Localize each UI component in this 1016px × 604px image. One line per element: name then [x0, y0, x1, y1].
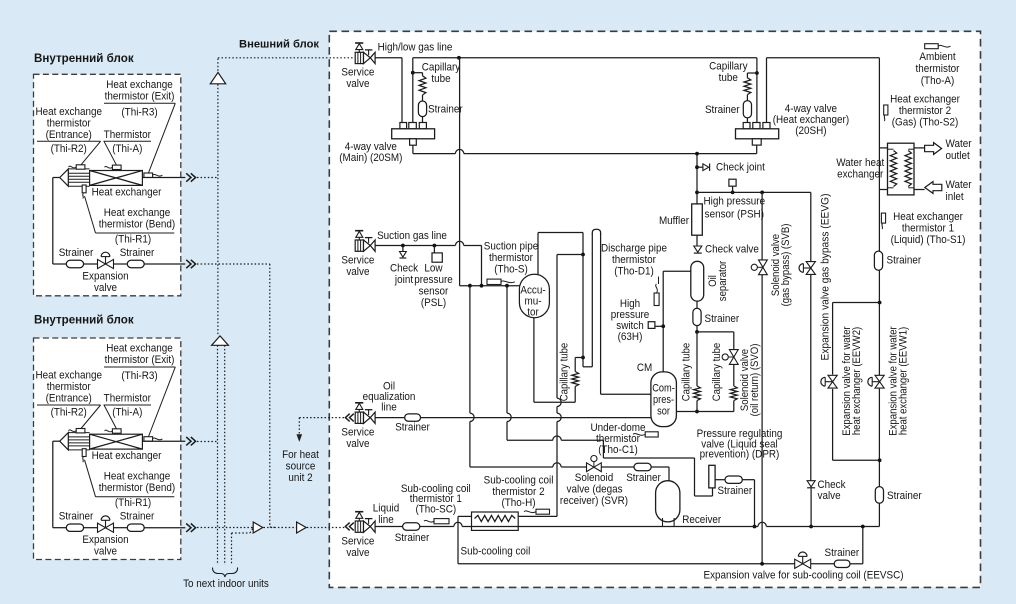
svg-text:High pressure: High pressure — [704, 196, 766, 208]
svg-text:unit 2: unit 2 — [288, 473, 312, 485]
svg-text:valve: valve — [346, 79, 369, 91]
svg-text:Heat exchanger: Heat exchanger — [92, 187, 162, 199]
svg-text:CM: CM — [637, 363, 652, 375]
svg-text:(gas bypass) (SVB): (gas bypass) (SVB) — [781, 224, 793, 307]
svg-text:thermistor 2: thermistor 2 — [899, 106, 951, 118]
svg-text:Service: Service — [341, 536, 374, 548]
svg-text:mu-: mu- — [524, 296, 542, 308]
svg-text:Liquid: Liquid — [373, 503, 400, 515]
svg-text:tube: tube — [719, 73, 738, 85]
svg-text:Strainer: Strainer — [705, 105, 740, 117]
svg-text:receiver) (SVR): receiver) (SVR) — [560, 496, 628, 508]
svg-text:Service: Service — [341, 67, 374, 79]
svg-text:Low: Low — [424, 263, 443, 275]
svg-text:(63H): (63H) — [618, 332, 643, 344]
svg-text:(Tho-S): (Tho-S) — [494, 264, 528, 276]
svg-text:sensor (PSH): sensor (PSH) — [705, 209, 764, 221]
svg-text:Strainer: Strainer — [824, 548, 859, 560]
svg-text:High/low gas line: High/low gas line — [378, 42, 453, 54]
svg-text:Strainer: Strainer — [717, 486, 752, 498]
svg-text:thermistor: thermistor — [596, 434, 640, 446]
svg-text:sor: sor — [657, 406, 670, 418]
svg-text:Check valve: Check valve — [705, 244, 759, 256]
svg-text:Heat exchanger: Heat exchanger — [890, 94, 960, 106]
svg-text:thermistor: thermistor — [47, 382, 91, 394]
svg-text:4-way valve: 4-way valve — [345, 141, 397, 153]
svg-text:(Thi-A): (Thi-A) — [112, 407, 142, 419]
svg-text:pres-: pres- — [653, 394, 674, 406]
svg-text:valve: valve — [346, 548, 369, 560]
svg-text:(Gas) (Tho-S2): (Gas) (Tho-S2) — [892, 117, 958, 129]
svg-text:Heat exchange: Heat exchange — [104, 471, 171, 483]
svg-text:Strainer: Strainer — [395, 422, 430, 434]
svg-text:(Tho-H): (Tho-H) — [501, 498, 535, 510]
svg-text:thermistor: thermistor — [612, 255, 656, 267]
svg-text:pressure: pressure — [611, 310, 650, 322]
svg-text:High: High — [620, 299, 641, 311]
svg-text:outlet: outlet — [946, 151, 970, 163]
svg-text:tor: tor — [527, 307, 539, 319]
svg-text:valve: valve — [94, 283, 117, 295]
svg-text:Strainer: Strainer — [395, 533, 430, 545]
svg-text:Accu-: Accu- — [520, 285, 546, 297]
svg-text:prevention) (DPR): prevention) (DPR) — [700, 449, 780, 461]
svg-text:Water heat: Water heat — [836, 157, 884, 169]
svg-text:Suction pipe: Suction pipe — [484, 241, 539, 253]
svg-text:Heat exchange: Heat exchange — [106, 80, 173, 92]
svg-text:Strainer: Strainer — [120, 511, 155, 523]
svg-text:(Thi-R1): (Thi-R1) — [115, 234, 151, 246]
svg-text:thermistor (Bend): thermistor (Bend) — [99, 219, 175, 231]
svg-text:separator: separator — [717, 260, 729, 301]
svg-text:(Entrance): (Entrance) — [46, 130, 92, 142]
svg-text:tube: tube — [431, 73, 450, 85]
svg-text:(Tho-SC): (Tho-SC) — [415, 504, 456, 516]
svg-text:valve: valve — [94, 546, 117, 558]
svg-text:line: line — [381, 402, 397, 414]
svg-text:valve (degas: valve (degas — [567, 484, 623, 496]
svg-text:(Heat exchanger): (Heat exchanger) — [773, 114, 849, 126]
svg-text:(oil return) (SVO): (oil return) (SVO) — [750, 344, 762, 417]
svg-text:(Thi-R2): (Thi-R2) — [51, 144, 87, 156]
svg-text:(Tho-A): (Tho-A) — [921, 76, 955, 88]
svg-text:thermistor: thermistor — [489, 253, 533, 265]
svg-text:Capillary: Capillary — [709, 61, 748, 73]
svg-text:pressure: pressure — [414, 275, 453, 287]
svg-text:thermistor (Exit): thermistor (Exit) — [105, 355, 175, 367]
svg-text:(Thi-R3): (Thi-R3) — [121, 371, 157, 383]
svg-text:(Thi-R3): (Thi-R3) — [121, 107, 157, 119]
svg-text:Heat exchange: Heat exchange — [35, 370, 102, 382]
svg-text:Внутренний блок: Внутренний блок — [34, 52, 134, 65]
svg-text:Thermistor: Thermistor — [104, 393, 152, 405]
svg-text:joint: joint — [394, 275, 413, 287]
svg-text:Strainer: Strainer — [887, 255, 922, 267]
svg-text:Strainer: Strainer — [887, 490, 922, 502]
svg-text:Heat exchanger: Heat exchanger — [893, 211, 963, 223]
svg-text:(20SH): (20SH) — [795, 125, 826, 137]
svg-text:thermistor (Bend): thermistor (Bend) — [99, 483, 175, 495]
svg-text:Heat exchange: Heat exchange — [35, 107, 102, 119]
svg-text:Capillary: Capillary — [422, 62, 461, 74]
svg-text:valve: valve — [346, 267, 369, 279]
svg-text:Water: Water — [946, 139, 972, 151]
svg-text:Muffler: Muffler — [659, 215, 690, 227]
svg-text:heat exchanger (EEVW1): heat exchanger (EEVW1) — [898, 327, 910, 435]
svg-text:(PSL): (PSL) — [421, 298, 446, 310]
svg-text:(Thi-R2): (Thi-R2) — [51, 407, 87, 419]
svg-text:thermistor: thermistor — [47, 118, 91, 130]
svg-text:inlet: inlet — [946, 192, 964, 204]
svg-text:Check: Check — [818, 480, 847, 492]
svg-text:Service: Service — [341, 255, 374, 267]
svg-text:Capillary tube: Capillary tube — [712, 343, 724, 402]
svg-text:thermistor 2: thermistor 2 — [492, 486, 544, 498]
svg-text:(Thi-R1): (Thi-R1) — [115, 498, 151, 510]
svg-text:Heat exchanger: Heat exchanger — [92, 451, 162, 463]
svg-text:Suction gas line: Suction gas line — [377, 231, 447, 243]
svg-text:Solenoid: Solenoid — [575, 473, 614, 485]
svg-text:Strainer: Strainer — [59, 511, 94, 523]
svg-text:Service: Service — [341, 427, 374, 439]
svg-text:Strainer: Strainer — [705, 313, 740, 325]
svg-text:(Tho-D1): (Tho-D1) — [614, 266, 654, 278]
svg-text:switch: switch — [616, 321, 644, 333]
svg-text:Expansion: Expansion — [82, 535, 128, 547]
svg-text:Capillary tube: Capillary tube — [559, 343, 571, 402]
svg-text:(Main) (20SM): (Main) (20SM) — [339, 152, 402, 164]
svg-text:Heat exchange: Heat exchange — [104, 208, 171, 220]
svg-text:thermistor (Exit): thermistor (Exit) — [105, 91, 175, 103]
svg-text:4-way valve: 4-way valve — [785, 103, 837, 115]
svg-text:(Tho-C1): (Tho-C1) — [598, 445, 638, 457]
svg-text:Receiver: Receiver — [682, 515, 722, 527]
svg-text:Check: Check — [390, 263, 419, 275]
svg-text:thermistor: thermistor — [916, 64, 960, 76]
svg-text:Strainer: Strainer — [59, 248, 94, 260]
svg-text:Check joint: Check joint — [716, 162, 765, 174]
svg-text:thermistor 1: thermistor 1 — [902, 223, 954, 235]
svg-text:To next indoor units: To next indoor units — [183, 579, 269, 591]
svg-text:(Entrance): (Entrance) — [46, 393, 92, 405]
svg-text:Strainer: Strainer — [626, 473, 661, 485]
svg-text:source: source — [286, 461, 316, 473]
svg-text:valve: valve — [346, 439, 369, 451]
svg-text:Внутренний блок: Внутренний блок — [34, 314, 134, 327]
svg-text:Under-dome: Under-dome — [591, 422, 646, 434]
svg-text:Strainer: Strainer — [428, 104, 463, 116]
svg-text:Expansion valve gas bypass (EE: Expansion valve gas bypass (EEVG) — [819, 194, 831, 361]
svg-text:Discharge pipe: Discharge pipe — [601, 243, 667, 255]
svg-text:Expansion: Expansion — [82, 271, 128, 283]
svg-text:Ambient: Ambient — [919, 52, 955, 64]
svg-text:sensor: sensor — [419, 286, 449, 298]
svg-text:valve: valve — [818, 491, 841, 503]
svg-text:line: line — [378, 515, 394, 527]
svg-text:Sub-cooling coil: Sub-cooling coil — [461, 546, 531, 558]
svg-text:(Liquid) (Tho-S1): (Liquid) (Tho-S1) — [891, 235, 966, 247]
svg-text:exchanger: exchanger — [837, 169, 884, 181]
svg-text:Capillary tube: Capillary tube — [681, 343, 693, 402]
svg-text:Com-: Com- — [652, 383, 675, 395]
svg-text:Thermistor: Thermistor — [104, 130, 152, 142]
svg-text:Water: Water — [946, 180, 972, 192]
svg-text:heat exchanger (EEVW2): heat exchanger (EEVW2) — [852, 327, 864, 435]
svg-text:Expansion valve for sub-coolin: Expansion valve for sub-cooling coil (EE… — [703, 570, 903, 582]
svg-text:Sub-cooling coil: Sub-cooling coil — [484, 475, 554, 487]
svg-text:Heat exchange: Heat exchange — [106, 343, 173, 355]
svg-text:For heat: For heat — [282, 450, 319, 462]
svg-text:Strainer: Strainer — [120, 248, 155, 260]
svg-text:(Thi-A): (Thi-A) — [112, 144, 142, 156]
svg-text:Внешний блок: Внешний блок — [239, 38, 319, 50]
